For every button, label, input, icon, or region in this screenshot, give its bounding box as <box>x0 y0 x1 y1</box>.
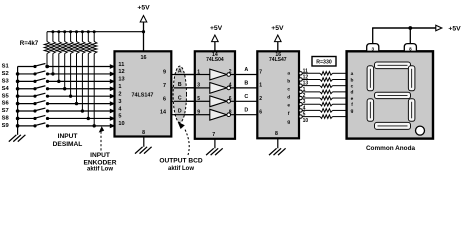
svg-text:d: d <box>351 90 354 96</box>
svg-text:A: A <box>178 69 182 75</box>
svg-text:b: b <box>287 79 290 85</box>
svg-text:8: 8 <box>275 131 278 137</box>
svg-text:3: 3 <box>118 99 121 105</box>
svg-text:1: 1 <box>259 83 262 89</box>
svg-text:B: B <box>178 82 182 88</box>
svg-text:INPUT: INPUT <box>58 133 78 140</box>
svg-text:7: 7 <box>212 132 215 138</box>
svg-text:S1: S1 <box>2 64 10 70</box>
svg-text:2: 2 <box>303 93 306 99</box>
svg-text:13: 13 <box>118 77 124 83</box>
svg-text:a: a <box>287 72 290 77</box>
svg-text:c: c <box>287 88 290 93</box>
svg-text:11: 11 <box>118 62 124 68</box>
svg-text:D: D <box>244 107 248 113</box>
svg-text:7: 7 <box>259 69 262 75</box>
svg-text:6: 6 <box>163 96 166 102</box>
svg-text:d: d <box>287 95 290 101</box>
svg-text:B: B <box>244 81 248 87</box>
svg-text:a: a <box>351 72 354 77</box>
svg-text:S5: S5 <box>2 93 10 99</box>
svg-text:1: 1 <box>118 84 121 90</box>
svg-text:2: 2 <box>259 96 262 102</box>
svg-text:10: 10 <box>118 121 124 127</box>
svg-text:11: 11 <box>303 68 309 74</box>
svg-text:74LS147: 74LS147 <box>131 92 153 98</box>
svg-text:ENKODER: ENKODER <box>84 159 117 166</box>
svg-text:S9: S9 <box>2 123 10 129</box>
svg-text:C: C <box>178 95 182 101</box>
svg-text:7: 7 <box>163 83 166 89</box>
svg-text:6: 6 <box>259 110 262 116</box>
svg-text:14: 14 <box>160 110 166 116</box>
svg-text:8: 8 <box>142 130 145 136</box>
svg-text:C: C <box>244 94 248 100</box>
svg-text:S3: S3 <box>2 78 10 84</box>
svg-text:+5V: +5V <box>271 25 284 32</box>
svg-text:e: e <box>287 104 290 109</box>
svg-text:Common Anoda: Common Anoda <box>366 145 416 152</box>
svg-text:S4: S4 <box>2 86 10 92</box>
svg-text:74LS47: 74LS47 <box>269 57 287 63</box>
svg-text:b: b <box>351 77 354 83</box>
svg-text:8: 8 <box>409 47 412 52</box>
svg-text:A: A <box>244 67 248 73</box>
svg-text:1: 1 <box>303 87 306 93</box>
svg-text:aktif Low: aktif Low <box>87 167 113 173</box>
svg-text:13: 13 <box>303 81 309 87</box>
svg-text:2: 2 <box>118 91 121 97</box>
svg-text:5: 5 <box>118 114 121 120</box>
svg-text:R=4k7: R=4k7 <box>20 40 39 47</box>
svg-text:9: 9 <box>163 70 166 76</box>
svg-text:+5V: +5V <box>137 5 150 12</box>
svg-text:R=330: R=330 <box>316 60 332 66</box>
svg-text:+5V: +5V <box>448 26 461 33</box>
svg-text:74LS04: 74LS04 <box>206 57 224 63</box>
svg-text:12: 12 <box>118 69 124 75</box>
svg-text:DESIMAL: DESIMAL <box>53 141 83 148</box>
svg-text:3: 3 <box>371 47 374 52</box>
svg-text:g: g <box>351 109 354 114</box>
svg-text:10: 10 <box>303 118 309 124</box>
svg-text:S2: S2 <box>2 71 9 77</box>
svg-text:4: 4 <box>303 105 306 111</box>
svg-text:3: 3 <box>303 99 306 105</box>
svg-text:5: 5 <box>303 112 306 118</box>
svg-text:c: c <box>351 84 354 89</box>
svg-text:e: e <box>351 97 354 102</box>
svg-text:S7: S7 <box>2 108 9 114</box>
svg-text:D: D <box>178 109 182 115</box>
svg-text:S8: S8 <box>2 116 10 122</box>
svg-text:12: 12 <box>303 74 309 80</box>
svg-text:16: 16 <box>141 55 147 61</box>
svg-text:aktif Low: aktif Low <box>168 166 194 172</box>
svg-text:INPUT: INPUT <box>90 152 110 159</box>
svg-text:S6: S6 <box>2 101 10 107</box>
svg-text:+5V: +5V <box>210 25 223 32</box>
svg-text:g: g <box>287 120 290 125</box>
svg-text:OUTPUT BCD: OUTPUT BCD <box>159 157 202 164</box>
